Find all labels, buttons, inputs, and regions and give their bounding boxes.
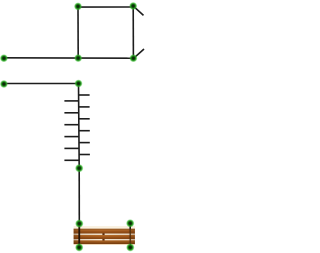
battery BT1: multi-cell ladder, vertical spine (node G to node H) xyxy=(78,84,81,169)
node I xyxy=(75,219,83,227)
horizontal end-shading overlay xyxy=(74,229,135,244)
dark top seam of plank 1 xyxy=(74,229,135,230)
wire: top side of loop (node A to node B) xyxy=(78,6,133,8)
wire: left side of loop (node A down to junction D) xyxy=(77,6,79,58)
wire: vertical drop from node H to resistor terminal node I xyxy=(78,168,80,223)
wire: second horizontal lead (node F to node G) xyxy=(4,83,79,85)
wire stub: diagonal from node E heading up-right xyxy=(134,49,144,58)
plank 3 xyxy=(74,240,135,244)
pale bottom edge xyxy=(74,243,135,246)
resistor R1: left terminal pin (node I to node K) xyxy=(78,224,80,248)
wire: main horizontal bus (node C through junction D to node E) xyxy=(4,57,134,59)
wire stub: diagonal from node B heading down-right xyxy=(133,6,143,15)
centre seam marks xyxy=(102,233,104,235)
node H xyxy=(75,164,83,172)
node K xyxy=(75,243,83,251)
pale top rail xyxy=(74,226,135,229)
plank 2 xyxy=(74,235,135,239)
node L xyxy=(126,243,134,251)
light gap 1 xyxy=(74,234,135,235)
resistor R1: right terminal pin (node J to node L) xyxy=(129,223,131,229)
resistor R1: wooden plank body xyxy=(74,226,135,245)
node B xyxy=(129,2,137,10)
battery BT1: right-side plates xyxy=(79,95,90,155)
plank 1 xyxy=(74,229,135,234)
node A xyxy=(74,2,82,10)
node F xyxy=(0,80,8,88)
node C xyxy=(0,54,8,62)
node E (junction) xyxy=(129,54,137,62)
node J xyxy=(126,219,134,227)
battery BT1: left-side plates xyxy=(64,101,79,160)
wire: right side of loop (node B down to junction E) xyxy=(132,6,134,58)
node G xyxy=(74,79,82,87)
light gap 2 xyxy=(74,239,135,240)
node D (junction) xyxy=(74,54,82,62)
